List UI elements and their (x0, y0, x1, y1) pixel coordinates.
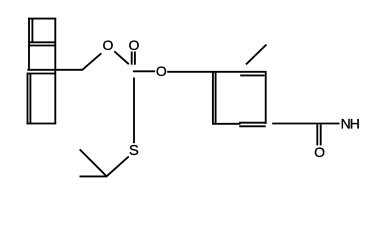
svg-text:O: O (156, 63, 167, 79)
C=O double bond line 1 (131, 52, 133, 65)
benzene top inner double bond (240, 74, 264, 76)
bond CH2 to O1 (82, 53, 101, 70)
amide C=O double bond line 2 (320, 125, 322, 146)
lower ring bottom edge (27, 123, 56, 125)
lower ring top edge (27, 73, 55, 75)
bond ring to CH2 (27, 69, 82, 71)
svg-text:O: O (103, 37, 114, 53)
fused ring cross bond (28, 45, 56, 47)
amide C=O double bond line 1 (316, 125, 318, 146)
fused ring right edge (54, 18, 56, 125)
fused ring top edge (28, 18, 56, 20)
methyl bond on benzene (246, 45, 266, 65)
benzene bottom edge left part (212, 123, 240, 125)
isopropyl methyl bond upleft (80, 149, 107, 176)
benzene bottom edge right part (239, 122, 267, 124)
svg-text:S: S (129, 142, 139, 159)
bond O3 to benzene + benzene top edge (167, 71, 266, 73)
C=O double bond line 2 (134, 52, 136, 65)
bond C to O3 (133, 70, 155, 72)
fused ring inner double bond vertical (31, 19, 33, 43)
bond benzene to amide C to NH (272, 123, 339, 125)
svg-text:O: O (314, 144, 325, 160)
fused ring inner double bond horizontal (30, 41, 56, 43)
svg-text:NH: NH (341, 116, 359, 132)
lower ring left inner double bond (29, 74, 31, 124)
benzene left outer edge (212, 72, 214, 125)
benzene left inner double bond (215, 72, 217, 124)
lower ring left outer edge (27, 73, 29, 125)
benzene right edge (265, 72, 267, 124)
bond C to S (133, 78, 135, 144)
bond S to isopropyl CH (107, 156, 129, 176)
isopropyl methyl bond left (80, 175, 108, 177)
fused ring left edge upper (28, 18, 30, 70)
benzene bottom outer double bond (239, 125, 266, 127)
svg-text:O: O (129, 37, 140, 53)
bond O1 to carbonate C (114, 51, 129, 64)
